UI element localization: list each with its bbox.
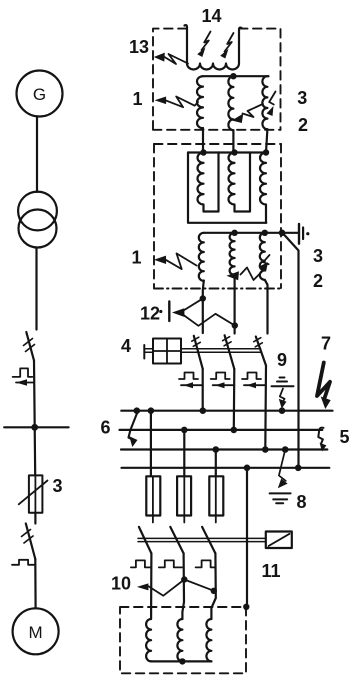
arrow 1 (top, at box edge) [166, 97, 199, 108]
disconnector blade col2 [225, 335, 235, 369]
svg-text:12: 12 [140, 304, 160, 324]
node bus1 feeder [148, 407, 155, 414]
svg-text:1: 1 [131, 248, 141, 268]
disconnector ticks [22, 530, 34, 544]
ticks col1 [192, 337, 201, 346]
wire stub col3 through gap [266, 129, 267, 152]
svg-text:14: 14 [201, 6, 221, 26]
surge arrow into winding (left) [202, 32, 211, 51]
svg-text:10: 10 [111, 574, 131, 594]
svg-text:13: 13 [129, 37, 149, 57]
breaker impulse col2 [211, 373, 230, 380]
node bus1 bolt6 [134, 407, 141, 414]
arrow 13 (lightning into box corner) [165, 54, 189, 64]
delta winding A coil [198, 153, 219, 212]
delta winding C coil [260, 153, 266, 223]
winding row1 phase C [262, 76, 268, 129]
wire stub col1 through gap [202, 128, 204, 153]
linkage double line (contactor row) [138, 538, 266, 541]
wire blade2 down [182, 553, 184, 619]
node bus1 arrow9 [279, 407, 286, 414]
fuse F3 left [29, 475, 43, 512]
svg-text:4: 4 [121, 336, 131, 356]
node secondary B [231, 230, 237, 236]
svg-text:3: 3 [52, 476, 62, 496]
node delta A [200, 149, 206, 155]
fuse F1 [146, 476, 160, 515]
node arrow10 wire2 [181, 576, 187, 582]
wire from bus4 to motor box [246, 468, 248, 607]
node motor box corner [243, 604, 249, 610]
svg-text:2: 2 [313, 271, 323, 291]
wire blade3 down [211, 553, 215, 619]
breaker impulse col1 [179, 373, 198, 380]
linkage end bar [143, 345, 145, 359]
wire to motor [34, 559, 36, 608]
motor impulse col3 [196, 560, 216, 567]
motor winding C [206, 619, 211, 661]
feeder wire 3 [215, 450, 217, 477]
svg-text:5: 5 [339, 427, 349, 447]
dashed box middle (transformer zone) [154, 144, 281, 289]
wire transformer to right bus (diagonal) [284, 234, 299, 468]
svg-text:2: 2 [298, 115, 308, 135]
svg-text:11: 11 [261, 561, 280, 581]
breaker impulse col3 [242, 373, 261, 380]
svg-text:M: M [29, 623, 43, 642]
contactor blade 1 [139, 527, 152, 554]
winding row1 phase A [197, 76, 203, 128]
left bus line [4, 426, 68, 428]
motor M1 circle [13, 608, 59, 654]
svg-text:3: 3 [297, 88, 307, 108]
ticks col3 [254, 338, 262, 347]
lightning arrow 8 [279, 451, 286, 481]
busbar 3 [121, 448, 327, 450]
symbol 12 bar and dot [159, 310, 162, 313]
node secondary C [262, 230, 268, 236]
arrow 12 (chopped surge) [172, 308, 185, 317]
impulse arrow [16, 382, 34, 384]
motor impulse col1 [131, 560, 151, 567]
motor winding A [146, 612, 151, 661]
svg-text:6: 6 [100, 418, 110, 438]
svg-text:9: 9 [277, 350, 287, 370]
feeder wire 2 [183, 430, 185, 476]
wire row2B down [234, 275, 236, 334]
disconnector blade col3 [256, 337, 266, 366]
wire col1 to bus1 [202, 369, 204, 411]
node bus3 col3 [262, 446, 269, 453]
dashed box motor zone [120, 607, 246, 673]
surge arrow row2 phase B [241, 268, 263, 281]
delta winding top bar [188, 151, 266, 153]
wire generator to transformer [36, 117, 38, 193]
HV line winding (element 14) [185, 25, 242, 69]
wire disconnector to fuse [34, 361, 35, 476]
node bus4 motor feeder [244, 465, 251, 472]
node delta B [231, 149, 237, 155]
delta closing rail [188, 153, 266, 223]
node left bus junction [31, 424, 38, 431]
row1 connector wire [203, 75, 269, 77]
node delta C [263, 149, 269, 155]
node bus4 right wire [295, 465, 302, 472]
lightning bolt 5 [318, 428, 323, 444]
motor winding B [177, 619, 182, 661]
secondary bus wire [204, 232, 298, 234]
busbar 1 [121, 410, 332, 412]
fuse F3 [209, 476, 223, 515]
contactor blade 3 [202, 527, 215, 554]
wire col2 to bus2 [233, 369, 236, 430]
delta winding B coil [229, 153, 250, 212]
winding row2 phase A [199, 233, 204, 281]
wire stub col2 through gap [232, 130, 234, 152]
busbar 4 [122, 467, 330, 469]
breaker impulse symbol (left upper) [13, 368, 33, 377]
wire fuse to lower disconnector [34, 513, 36, 524]
breaker box 4 [153, 339, 181, 364]
busbar 2 [120, 429, 323, 431]
wire row2A down [203, 281, 204, 334]
svg-text:8: 8 [296, 492, 306, 512]
dashed box upper (surge zone 1) [153, 29, 281, 130]
disconnector ticks [24, 339, 35, 352]
motor star point wire [151, 660, 211, 662]
surge arrow row1 phase C [269, 92, 275, 105]
winding row2 phase B [230, 233, 235, 275]
wire col3 to bus3 [264, 366, 267, 450]
motor impulse col2 [159, 560, 182, 567]
node bus1 col1 [200, 407, 207, 414]
winding row1 phase B [228, 76, 233, 130]
node bus3 arrow8 [282, 446, 289, 453]
lightning bolt 6 [129, 413, 138, 441]
svg-text:7: 7 [321, 334, 331, 354]
svg-text:1: 1 [132, 89, 142, 109]
arrow 10 [149, 580, 214, 596]
contactor blade 2 [170, 527, 183, 554]
fuse F2 [177, 476, 191, 515]
node row1 [230, 73, 236, 79]
wire transformer to disconnector [35, 248, 37, 330]
lightning bolt 7 [317, 363, 330, 399]
linkage double line (breaker row) [144, 348, 260, 350]
node bus2 feeder [181, 427, 188, 434]
node tap col2 [232, 322, 238, 328]
earth symbol 8 [270, 493, 291, 503]
svg-text:3: 3 [313, 246, 323, 266]
disconnector blade (left chain upper) [26, 332, 34, 361]
breaker impulse symbol (left lower) [12, 560, 35, 565]
operating coil box 11 [266, 532, 292, 549]
bushing capacitor symbol [298, 224, 300, 244]
disconnector blade (left chain lower) [26, 524, 36, 560]
surge arrow 9 to bus [280, 389, 285, 403]
transformer T1 (two overlapping circles) [18, 192, 57, 231]
node bus2 col2 [231, 427, 238, 434]
node secondary right [279, 230, 286, 237]
surge arrow row1 phase B [243, 104, 263, 117]
feeder wire 1 [150, 411, 152, 477]
generator G1 circle [17, 71, 63, 117]
surge arrow into winding (right) [225, 33, 234, 52]
node bus3 feeder [213, 446, 220, 453]
arrow 1 (middle, at box edge) [166, 253, 197, 269]
svg-text:G: G [33, 85, 46, 104]
surge arrow row2 phase C [263, 255, 269, 264]
winding row2 phase C [260, 233, 268, 334]
inverted earth symbol 9 [272, 378, 294, 387]
ticks col2 [223, 337, 232, 346]
node arrow10 wire3 [211, 588, 217, 594]
disconnector blade col1 [194, 336, 203, 369]
wire blade1 down [150, 553, 152, 612]
node tap col1 [200, 295, 206, 301]
node star point [179, 658, 185, 664]
